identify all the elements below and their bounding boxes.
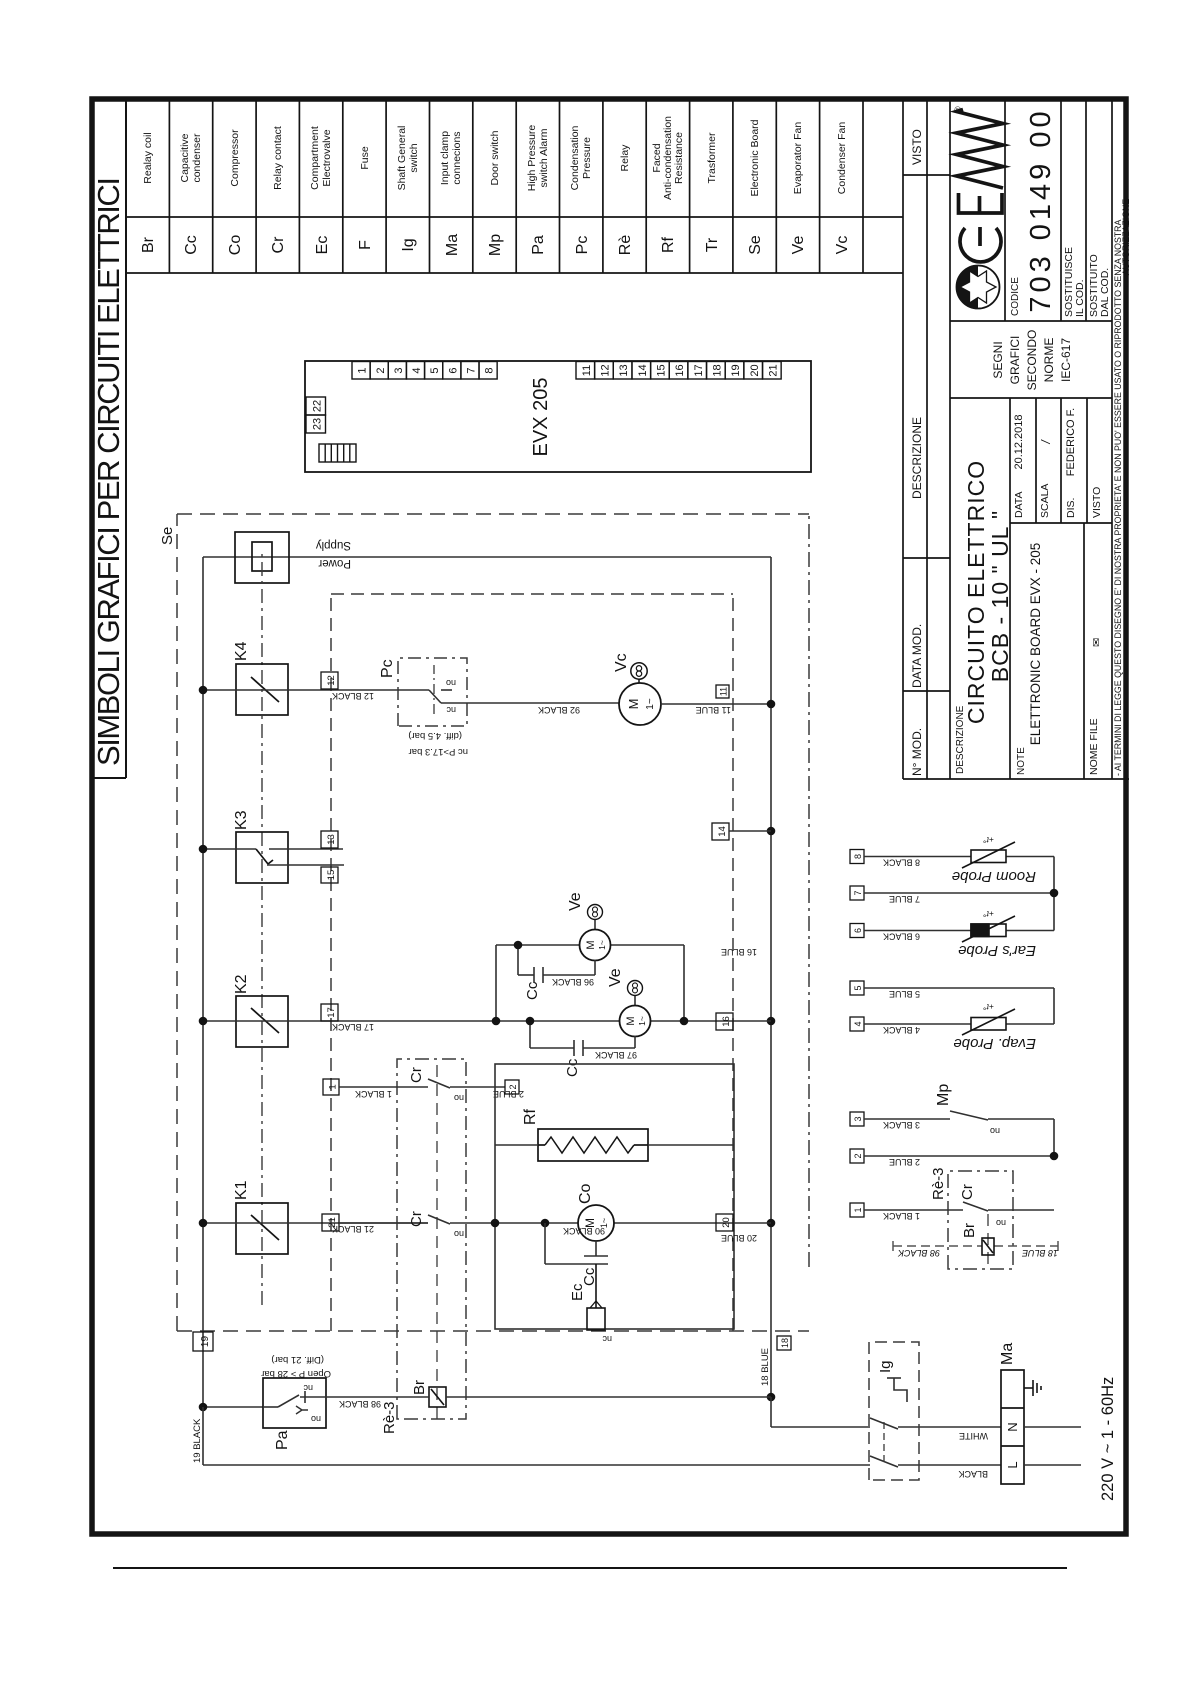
svg-text:Capacitive: Capacitive [179,133,191,182]
svg-text:no: no [990,1126,1000,1136]
wire: neutral return rail [770,557,772,1397]
label 12 BLACK [332,691,374,701]
svg-text:96 BLACK: 96 BLACK [552,977,594,987]
relay coil K4 [236,664,288,715]
svg-text:7: 7 [853,890,863,895]
label 3 BLACK [883,1120,920,1130]
wires: supply conductors below Ma [1024,1427,1081,1465]
evap probe sensor [962,1009,1015,1035]
svg-text:M: M [585,940,597,949]
inner dashed box (board I/O boundary) [331,594,733,1331]
terminal 21 [322,1214,339,1231]
svg-text:4: 4 [411,367,423,373]
label BLACK [958,1469,988,1479]
junction dots rail [767,700,776,1402]
wire: evap probe pair [864,988,1054,1024]
terminal 1 (board) [323,1079,339,1095]
capacitor Cc for Ve2 [530,1021,635,1056]
svg-text:nc P>17.3 bar: nc P>17.3 bar [409,746,468,757]
Ig contacts [870,1418,898,1467]
svg-text:1 BLACK: 1 BLACK [883,1211,920,1221]
label Co [577,1183,594,1204]
wire: line conductor from top bus to main switch [203,1407,1001,1465]
svg-text:Compartment: Compartment [309,126,321,190]
labels L N [1005,1422,1020,1468]
label 19 BLACK [192,1418,203,1463]
svg-text:no: no [996,1218,1006,1228]
svg-text:Pa: Pa [530,235,547,255]
svg-text:5: 5 [853,985,863,990]
label Ve 2 [607,968,624,987]
svg-text:M: M [625,1016,637,1025]
svg-text:SEGNI: SEGNI [991,341,1005,378]
svg-text:11: 11 [581,365,593,376]
svg-text:Mp: Mp [487,234,504,256]
GEMM logo letters [957,110,1004,262]
svg-text:GRAFICI: GRAFICI [1008,336,1022,385]
wire: K4 drop to terminal 12 and Pc [203,689,398,691]
svg-text:20 BLUE: 20 BLUE [721,1233,757,1243]
svg-text:21: 21 [767,364,779,376]
GEMM logo emblem [957,266,1000,309]
label Mp [935,1084,952,1106]
svg-text:Pc: Pc [574,236,591,255]
svg-text:Ear's Probe: Ear's Probe [958,942,1036,959]
svg-text:8: 8 [853,854,863,859]
label 92 BLACK [538,705,580,715]
svg-text:SIMBOLI GRAFICI PER CIRCUITI E: SIMBOLI GRAFICI PER CIRCUITI ELETTRICI [91,176,126,766]
svg-text:Ma: Ma [999,1343,1016,1365]
wire: K2 drop to terminal 17 and fans [203,1020,496,1022]
svg-text:19: 19 [200,1336,211,1348]
svg-text:Co: Co [227,235,244,256]
svg-text:ELETTRONIC BOARD EVX - 205: ELETTRONIC BOARD EVX - 205 [1028,543,1043,746]
svg-text:Ve: Ve [567,892,584,911]
contact Cr (on K1 wire) [339,1215,495,1224]
junction dot Mp bus [1050,1152,1059,1161]
label no (Cr field) [996,1218,1006,1228]
svg-text:VISTO: VISTO [1091,487,1103,518]
svg-text:EVX 205: EVX 205 [530,378,552,457]
svg-text:17: 17 [326,1007,337,1018]
board terminals 1-8 [352,362,497,380]
svg-text:6: 6 [853,928,863,933]
svg-text:4 BLACK: 4 BLACK [883,1025,920,1035]
legend table grid [126,99,903,273]
svg-text:11: 11 [719,687,729,696]
pressure switch Pa box [263,1378,326,1428]
svg-text:Resistance: Resistance [673,132,685,184]
Pa contact [263,1391,326,1414]
svg-text:K4: K4 [233,641,250,661]
svg-text:Input clamp: Input clamp [439,131,451,185]
power supply box [235,532,289,583]
evaporator fan motor Ve 2 [620,1006,651,1037]
svg-text:2 BLUE: 2 BLUE [889,1157,920,1167]
svg-text:M: M [583,1218,597,1228]
svg-text:98 BLACK: 98 BLACK [897,1248,940,1258]
svg-text:4: 4 [853,1021,863,1026]
label 220 V ~ 1 - 60Hz [1099,1377,1117,1501]
svg-text:NOTE: NOTE [1016,747,1027,775]
compressor circuit enclosure box [495,1064,734,1329]
terminal 2 [505,1080,519,1094]
evaporator fan motor Ve 1 [580,930,611,961]
svg-text:Evap. Probe: Evap. Probe [953,1035,1036,1052]
Ve1 fan symbol [588,905,603,930]
label Re-3 no.2 [930,1167,947,1200]
board terminals 23 and 22 [306,397,326,433]
svg-text:Rè: Rè [617,235,634,256]
pressure switch Pc box [398,658,467,726]
svg-text:CODICE: CODICE [1010,277,1021,316]
wire: Rf stubs [495,1144,734,1146]
svg-text:Ig: Ig [877,1360,894,1373]
terminal 1 (field side) [850,1203,864,1217]
svg-text:switch: switch [408,143,420,172]
relay box Re-3 no.1 [397,1059,466,1419]
svg-text:NORME: NORME [1042,338,1056,383]
svg-text:Evaporator Fan: Evaporator Fan [792,122,804,195]
wire: K2 junction to evaporator fan 1 [496,945,684,1021]
svg-text:2: 2 [853,1153,863,1158]
svg-text:Fuse: Fuse [359,146,371,170]
terminal 3 (field side) [850,1112,864,1126]
svg-text:98 BLACK: 98 BLACK [339,1399,381,1409]
Ig actuator [887,1378,907,1402]
svg-text:6: 6 [447,367,459,373]
svg-text:BLACK: BLACK [958,1469,988,1479]
label no (Cr2) [454,1229,464,1239]
label 16 BLUE [721,947,757,957]
capacitor Cc for Ve1 [518,945,595,983]
wire: 2 BLUE return [864,1155,1054,1157]
svg-text:FEDERICO F.: FEDERICO F. [1065,408,1077,476]
terminal 13 [321,831,338,848]
svg-text:Compressor: Compressor [229,129,241,187]
svg-text:Shaft General: Shaft General [396,126,408,191]
label 5 BLUE [889,989,920,999]
svg-text:nc: nc [303,1383,313,1393]
label 7 BLUE [889,894,920,904]
label +t (evap) [983,1002,994,1012]
svg-text:19 BLACK: 19 BLACK [192,1418,203,1463]
svg-text:14: 14 [717,826,728,837]
svg-text:13: 13 [618,364,630,376]
svg-text:21 BLACK: 21 BLACK [332,1224,374,1234]
svg-text:3: 3 [853,1116,863,1121]
svg-text:20.12.2018: 20.12.2018 [1013,414,1025,469]
svg-text:®: ® [953,106,963,113]
label 2 BLUE [493,1089,524,1099]
label 90 BLACK [563,1226,605,1236]
svg-text:WHITE: WHITE [959,1431,988,1441]
svg-text:5: 5 [429,367,441,373]
label Cc (compressor) [581,1267,598,1286]
label 8 BLACK [883,858,920,868]
svg-text:nc: nc [602,1334,612,1344]
electronic board enclosure Se (dashed box) [177,514,809,1331]
svg-text:Br: Br [961,1223,978,1238]
wire: K2 main line to rail [496,1020,771,1022]
svg-text:18: 18 [780,1338,790,1348]
svg-text:Door switch: Door switch [489,130,501,185]
wire: terminal 14 stub to rail [729,830,771,832]
svg-text:1 BLACK: 1 BLACK [355,1089,392,1099]
svg-text:K3: K3 [233,810,250,830]
Pc mechanical link [433,665,435,714]
label WHITE [959,1431,988,1441]
anti-condensation resistance Rf [538,1129,648,1161]
label +t (ears) [983,909,994,919]
svg-text:Cr: Cr [959,1184,976,1200]
svg-text:Relay contact: Relay contact [272,126,284,190]
label Br no.1 [411,1380,428,1395]
svg-text:3: 3 [393,367,405,373]
svg-text:20: 20 [749,364,761,376]
svg-text:Supply: Supply [316,539,351,551]
svg-text:1~: 1~ [637,1016,647,1026]
svg-text:no: no [446,678,456,688]
svg-text:VISTO: VISTO [910,129,924,165]
legend abbreviations column [140,234,851,256]
contact Cr (on wire 1, field) [864,1202,1054,1211]
svg-text:Ec: Ec [569,1283,586,1301]
svg-text:- AI TERMINI DI LEGGE QU: - AI TERMINI DI LEGGE QUESTO DISEGNO E' … [1113,219,1123,776]
relay box Re-3 no.2 [948,1171,1013,1269]
title text [91,176,126,766]
room probe sensor [962,842,1015,868]
Pc caption: nc P>17.3 bar (diff. 4.5 bar) [408,730,468,757]
label Se [159,527,176,545]
svg-text:1~: 1~ [597,940,607,950]
CODICE cell [1010,107,1111,317]
label Evap. Probe [953,1035,1036,1052]
terminal 12 [321,672,338,689]
svg-text:NOME FILE: NOME FILE [1088,718,1100,775]
svg-text:Trasformer: Trasformer [706,132,718,183]
svg-text:Cc: Cc [524,981,541,1000]
wire: ears probe branch [864,930,1054,932]
svg-text:Electrovalve: Electrovalve [321,129,333,186]
board connector comb [319,444,356,462]
svg-text:2 BLUE: 2 BLUE [493,1089,524,1099]
svg-text:1: 1 [853,1207,863,1212]
board terminals 11-21 [576,362,781,380]
Re-3 no.2 mechanical dash line [987,1214,989,1264]
svg-text:Relay: Relay [619,144,631,172]
svg-text:Ma: Ma [444,234,461,256]
label 11 BLUE [696,705,731,715]
Re-3 mechanical dash line [436,1059,438,1419]
label Rf [522,1108,539,1125]
svg-text:16 BLUE: 16 BLUE [721,947,757,957]
svg-text:connecions: connecions [451,131,463,184]
SEGNI GRAFICI cell [991,330,1073,391]
label Ec [569,1283,586,1301]
svg-text:12 BLACK: 12 BLACK [332,691,374,701]
wire: top supply bus [202,557,204,1407]
svg-text:✉: ✉ [1091,638,1103,647]
svg-text:Se: Se [159,527,176,545]
wire: Pa drop [203,1406,263,1408]
svg-text:Se: Se [747,235,764,255]
svg-text:AUTORIZZAZIONE: AUTORIZZAZIONE [1121,199,1131,276]
svg-text:Tr: Tr [704,237,721,252]
svg-text:17 BLACK: 17 BLACK [332,1022,374,1032]
terminal 6 (field side) [850,924,864,938]
svg-text:(diff. 4.5 bar): (diff. 4.5 bar) [408,730,462,741]
input terminal block Ma [1001,1370,1024,1484]
ground symbol [1024,1380,1041,1396]
terminal 5 (field side) [850,981,864,995]
svg-text:6 BLACK: 6 BLACK [883,932,920,942]
Pa caption: Open P>28 bar (Diff. 21 bar) [261,1354,331,1379]
label K1 [233,1180,250,1200]
label +t (room) [983,835,994,845]
title band: SIMBOLI GRAFICI PER CIRCUITI ELETTRICI [90,99,126,778]
svg-text:Cr: Cr [408,1211,425,1227]
svg-text:12: 12 [600,364,612,376]
svg-text:Rè-3: Rè-3 [930,1167,947,1200]
svg-text:Ve: Ve [790,236,807,255]
svg-text:Br: Br [140,236,157,253]
label Cr (1) [408,1067,425,1083]
wire: right bus down through power supply [203,556,771,558]
junction dots Ve circuit [492,941,689,1026]
ears probe sensor [962,916,1015,942]
svg-text:Condensation: Condensation [569,125,581,190]
schematic sheet drawn in landscape coords, rotated -90 into portrait page [90,99,1131,1568]
label Cc (Ve2) [564,1058,581,1077]
svg-text:220 V ~ 1 - 60Hz: 220 V ~ 1 - 60Hz [1099,1377,1117,1501]
svg-text:IL COD.: IL COD. [1074,279,1086,317]
terminal 15 [321,867,338,883]
label 21 BLACK [332,1224,374,1234]
wire: 7 BLUE return [864,892,1054,894]
svg-text:92 BLACK: 92 BLACK [538,705,580,715]
label Vc [613,653,630,672]
terminal 4 (field side) [850,1017,864,1031]
margin line outside left border [113,1567,1067,1569]
svg-text:Rf: Rf [522,1108,539,1125]
svg-text:22: 22 [312,400,324,412]
svg-text:7: 7 [466,367,478,373]
svg-text:F: F [357,240,374,250]
label no (Cr1) [454,1093,464,1103]
svg-text:K1: K1 [233,1180,250,1200]
label Br no.2 [961,1223,978,1238]
svg-text:Cr: Cr [408,1067,425,1083]
svg-text:IEC-617: IEC-617 [1059,338,1073,382]
label Cr (2) [408,1211,425,1227]
svg-text:(Diff. 21 bar): (Diff. 21 bar) [271,1354,324,1365]
svg-text:8 BLACK: 8 BLACK [883,858,920,868]
relay coil K2 [236,996,288,1047]
Ve2 fan symbol [628,981,643,1006]
svg-text:Pressure: Pressure [581,137,593,179]
svg-text:K2: K2 [233,974,250,994]
page frame border [92,99,1126,1568]
svg-text:no: no [311,1414,321,1424]
svg-text:1: 1 [357,367,369,373]
svg-text:Electronic Board: Electronic Board [749,119,761,196]
svg-text:CIRCUITO ELETTRICO: CIRCUITO ELETTRICO [963,460,989,724]
terminal 7 (field side) [850,886,864,900]
label 98 BLACK (Pa wire) [339,1399,381,1409]
svg-text:DAL COD.: DAL COD. [1099,268,1111,317]
label 6 BLACK [883,932,920,942]
svg-text:19: 19 [730,364,742,376]
svg-text:+t°: +t° [983,909,994,919]
terminal 8 (field side) [850,850,864,864]
Ig mechanical link [883,1422,885,1462]
svg-text:+t°: +t° [983,1002,994,1012]
svg-text:DESCRIZIONE: DESCRIZIONE [910,417,924,499]
label Pc [379,659,396,678]
svg-text:Room Probe: Room Probe [952,868,1036,885]
junction dots on top bus [199,686,208,1412]
condenser fan motor Vc [619,683,661,725]
relay coil Br no.1 [429,1387,446,1407]
svg-text:DATA MOD.: DATA MOD. [910,624,924,688]
capacitor Cc (compressor) [545,1223,608,1264]
svg-text:L: L [1005,1461,1020,1468]
junction dot probes [1050,889,1059,898]
svg-text:Power: Power [318,557,351,569]
label K4 [233,641,250,661]
wire: K3 drop to terminal 13 [203,848,343,850]
svg-text:/: / [1039,439,1053,445]
svg-text:BCB - 10 " UL ": BCB - 10 " UL " [987,510,1013,682]
terminal 20 [716,1214,733,1231]
terminal 18 [777,1336,791,1350]
svg-text:Vc: Vc [834,236,851,255]
label 18 BLUE (dashed lead) [1021,1248,1058,1258]
svg-text:Pc: Pc [379,659,396,678]
label 1 BLACK [883,1211,920,1221]
svg-text:N: N [1005,1422,1020,1431]
label 20 BLUE [721,1233,757,1243]
main switch Ig (dashed box) [869,1342,919,1480]
Vc fan symbol [631,663,647,683]
svg-text:15: 15 [326,870,337,881]
title block texts left [955,408,1103,775]
wire: Vc to rail [661,703,771,705]
svg-text:DIS.: DIS. [1065,498,1077,518]
svg-text:1~: 1~ [599,1218,609,1228]
wire: rail exit to main switch [771,1397,1001,1427]
svg-text:N° MOD.: N° MOD. [910,728,924,776]
svg-text:3 BLACK: 3 BLACK [883,1120,920,1130]
legend names column [142,116,848,200]
terminal 19 [193,1332,213,1351]
svg-text:SCALA: SCALA [1039,484,1051,518]
svg-text:703 0149 00: 703 0149 00 [1025,107,1057,312]
terminal 17 [321,1004,338,1021]
revision strip [903,99,1129,779]
wire: room probe branch [864,857,1054,931]
svg-text:5 BLUE: 5 BLUE [889,989,920,999]
svg-text:16: 16 [674,364,686,376]
terminal 16 [716,1013,733,1030]
svg-text:switch Alarm: switch Alarm [538,128,550,187]
svg-text:17: 17 [693,364,705,376]
labels no nc at Pc [446,678,456,715]
label 98 BLACK (dashed lead) [897,1248,940,1258]
svg-text:Ec: Ec [314,236,331,255]
label Ma [999,1343,1016,1365]
